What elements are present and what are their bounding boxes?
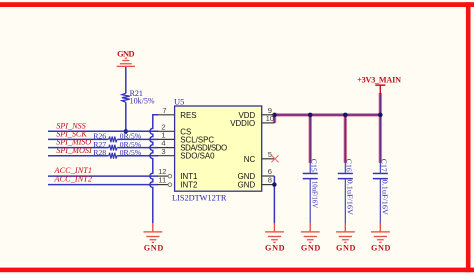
- svg-text:GND: GND: [336, 243, 356, 252]
- capacitor C16: [338, 159, 355, 223]
- wire +3V3_MAIN port down to rail: [378, 93, 382, 115]
- wire SPI_MISO to R27: [48, 147, 109, 149]
- junction at C15 column: [308, 113, 313, 118]
- svg-text:GND: GND: [371, 243, 391, 252]
- junction at C16 column: [343, 113, 348, 118]
- svg-text:8: 8: [268, 176, 272, 185]
- wire RES (pin 7) to GND with hops over 6 wires: [150, 115, 158, 223]
- IC U5 LIS2DTW12TR body: [172, 96, 262, 202]
- pin 6 GND: [238, 167, 275, 181]
- svg-text:NC: NC: [244, 155, 256, 164]
- pin 2 CS: [157, 122, 191, 136]
- no-connect X on pin 5: [271, 155, 278, 162]
- svg-text:7: 7: [162, 106, 166, 115]
- pin 5 NC: [244, 150, 275, 164]
- ground (below C15): [301, 223, 321, 252]
- svg-text:R28: R28: [93, 148, 106, 157]
- junction at C17 column: [378, 113, 383, 118]
- junction at pin 8: [272, 182, 276, 186]
- svg-text:GND: GND: [144, 243, 164, 252]
- svg-text:SPI_MOSI: SPI_MOSI: [56, 146, 93, 155]
- ground GND (top, above R21): [117, 50, 135, 67]
- svg-text:11: 11: [158, 176, 166, 185]
- svg-text:GND: GND: [117, 50, 134, 59]
- pin 3 SDO/SA0: [157, 147, 215, 161]
- svg-text:C17: C17: [380, 159, 389, 172]
- svg-text:ACC_INT2: ACC_INT2: [54, 175, 93, 184]
- resistor R26: [93, 132, 142, 143]
- resistor R21: [122, 89, 155, 106]
- ground (below RES wire): [144, 223, 164, 252]
- svg-text:GND: GND: [265, 243, 285, 252]
- pin 4 SDA/SDI/SDO: [157, 139, 227, 153]
- capacitor C17: [373, 159, 390, 223]
- wire SPI_SCK to R26: [48, 138, 109, 140]
- wire R28 to pin 3: [117, 155, 158, 157]
- wire ACC_INT2 to pin 11: [48, 184, 158, 186]
- svg-text:0.1uF/16V: 0.1uF/16V: [381, 180, 390, 216]
- pin 11 INT2 (with bubble): [157, 176, 197, 190]
- power port +3V3_MAIN: [357, 76, 401, 94]
- wire R27 to pin 4: [117, 147, 158, 149]
- resistor R28: [93, 148, 142, 159]
- pin 8 GND: [238, 176, 275, 190]
- svg-text:U5: U5: [174, 96, 184, 106]
- capacitor C15: [303, 159, 320, 223]
- svg-text:10: 10: [266, 114, 274, 123]
- ground (below C16): [336, 223, 356, 252]
- pin 7 RES: [157, 106, 196, 120]
- ground (below IC GND pins): [265, 223, 285, 252]
- ground (below C17): [371, 223, 391, 252]
- wire GND to R21: [125, 67, 127, 93]
- junction at VDD pin: [272, 113, 277, 118]
- svg-text:VDDIO: VDDIO: [230, 119, 255, 128]
- svg-text:GND: GND: [238, 181, 256, 190]
- svg-text:RES: RES: [180, 111, 196, 120]
- svg-text:3: 3: [161, 147, 165, 156]
- svg-text:INT2: INT2: [180, 181, 197, 190]
- wire R26 to pin 1: [117, 138, 158, 140]
- wire R21 to junction: [125, 102, 127, 131]
- pin 1 SCL/SPC: [157, 131, 214, 145]
- svg-text:+3V3_MAIN: +3V3_MAIN: [357, 76, 401, 85]
- junction on SPI_NSS wire: [124, 129, 128, 133]
- svg-text:SDO/SA0: SDO/SA0: [180, 152, 215, 161]
- svg-text:10k/5%: 10k/5%: [130, 96, 155, 105]
- svg-text:LIS2DTW12TR: LIS2DTW12TR: [172, 194, 227, 203]
- svg-text:0.1uF/16V: 0.1uF/16V: [346, 180, 355, 216]
- wire SPI_NSS to pin 2: [48, 130, 158, 132]
- wire rail down to C16: [343, 115, 347, 163]
- wire rail down to C15: [308, 115, 312, 163]
- pin 10 VDDIO: [230, 114, 274, 128]
- pin 9 VDD: [239, 106, 275, 120]
- svg-text:C16: C16: [345, 159, 354, 172]
- wire SPI_MOSI to R28: [48, 155, 109, 157]
- wire rail down to C17: [378, 115, 382, 163]
- wire ACC_INT1 to pin 12: [48, 175, 158, 177]
- wire pin 6 / pin 8 to ground: [273, 176, 275, 223]
- power rail wire (VDD to +3V3_MAIN): [275, 113, 381, 117]
- svg-text:5: 5: [268, 150, 272, 159]
- svg-text:GND: GND: [301, 243, 321, 252]
- svg-text:10uF/16V: 10uF/16V: [311, 181, 320, 209]
- pin 12 INT1 (with bubble): [157, 167, 197, 181]
- resistor R27: [93, 140, 142, 151]
- power wire VDDIO to VDD (vertical): [273, 115, 277, 123]
- svg-text:C15: C15: [310, 159, 319, 172]
